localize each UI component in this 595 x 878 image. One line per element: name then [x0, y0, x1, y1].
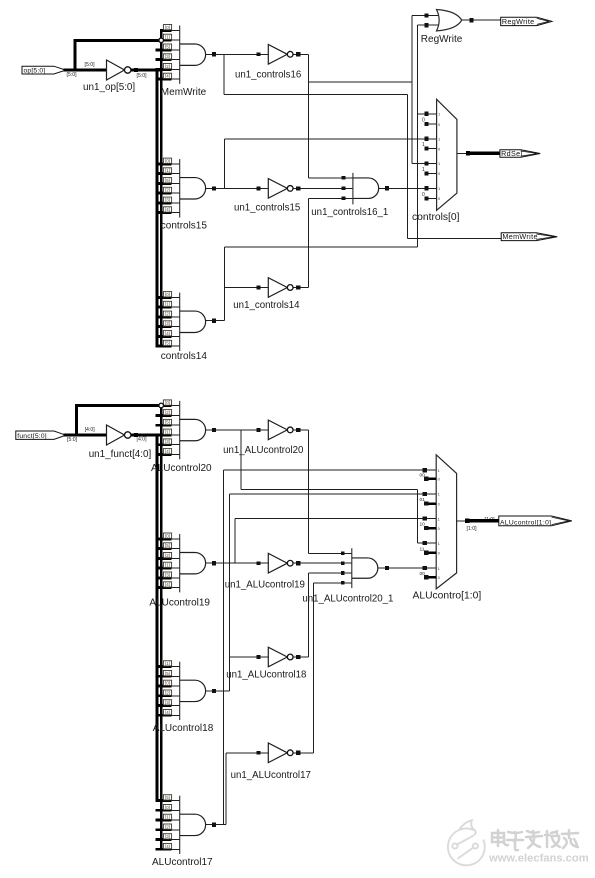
inverter un1_funct[4:0]: [107, 425, 125, 445]
output port RegWrite: [501, 17, 552, 25]
inverter un1_ALUcontrol19: [268, 553, 287, 573]
junction square RegWrite output: [469, 18, 473, 22]
svg-text:[1]: [1]: [165, 168, 170, 173]
svg-text:ALUcontrol20: ALUcontrol20: [151, 463, 212, 474]
wire un1_ALUcontrol17 vertical up: [313, 583, 315, 753]
wire funct bus to inverter: [64, 434, 108, 437]
wire ALUcontrol19 branch up: [234, 519, 236, 564]
wire funct bus top run: [75, 404, 159, 407]
wire MemWrite gate output to un1_controls16: [206, 53, 269, 55]
wire ALUcontrol20 output to un1_ALUcontrol20: [206, 429, 269, 431]
svg-text:[5]: [5]: [165, 543, 170, 548]
svg-text:1: 1: [438, 161, 440, 166]
junction square controls15 output: [212, 186, 216, 190]
svg-text:01: 01: [420, 497, 426, 503]
svg-text:[3]: [3]: [165, 197, 170, 202]
junction dot AND2 in4: [341, 581, 345, 585]
junction square un1_controls15 output: [296, 186, 300, 190]
bus tap [1]: [156, 172, 172, 175]
svg-text:MemWrite: MemWrite: [161, 87, 207, 98]
junction square mux pin3: [424, 137, 428, 141]
wire un1_ALUcontrol18 vertical up: [308, 573, 310, 657]
bus vertical un1_op (inverted): [156, 70, 159, 346]
bus tap [3]: [156, 58, 172, 61]
AND gate ALUcontrol18: [179, 662, 181, 720]
svg-text:[5:0]: [5:0]: [137, 73, 148, 79]
wire un1_funct output bus: [131, 434, 163, 437]
wire ALUcontrol19 output to un1_ALUcontrol19: [206, 562, 269, 564]
junction square ALUcontrol18 output: [212, 689, 216, 693]
junction square un1_controls15 input: [257, 187, 261, 191]
svg-text:1: 1: [438, 186, 440, 191]
svg-text:un1_controls15: un1_controls15: [234, 203, 300, 214]
bus tap [3]: [156, 838, 172, 841]
svg-text:[3]: [3]: [165, 700, 170, 705]
mux ALUcontro select stub 5: [424, 576, 436, 579]
svg-text:un1_funct[4:0]: un1_funct[4:0]: [89, 449, 152, 460]
wire un1_ALUcontrol18 output: [293, 656, 308, 658]
AND gate ALUcontrol19: [179, 534, 181, 592]
junction square RegWrite in2: [424, 23, 428, 27]
junction square un1_controls16 input: [257, 52, 261, 56]
junction square MemWrite output: [212, 52, 216, 56]
watermark chinese characters: [492, 830, 578, 850]
svg-text:[5]: [5]: [165, 795, 170, 800]
svg-text:ALUcontrol[1:0]: ALUcontrol[1:0]: [500, 519, 551, 526]
wire ALUcontrol17 vertical up long: [223, 470, 225, 825]
svg-text:un1_controls16: un1_controls16: [235, 69, 301, 80]
inverter un1_ALUcontrol17: [268, 743, 287, 763]
junction square un1_ALUcontrol19 input: [257, 561, 261, 565]
svg-text:controls15: controls15: [161, 221, 208, 232]
wire un1_ALUcontrol20_1 output to mux data5: [378, 567, 436, 569]
svg-text:[3]: [3]: [165, 321, 170, 326]
svg-text:1: 1: [438, 112, 440, 117]
AND gate un1_ALUcontrol20_1: [351, 548, 353, 588]
bus tap [1]: [156, 306, 172, 309]
svg-text:[4]: [4]: [165, 449, 170, 454]
bus tap [4]: [156, 335, 172, 338]
svg-text:[5]: [5]: [165, 671, 170, 676]
svg-text:[5:0]: [5:0]: [85, 62, 96, 68]
svg-text:ALUcontro[1:0]: ALUcontro[1:0]: [413, 591, 482, 602]
bus tap [3]: [156, 704, 172, 707]
svg-text:[0]: [0]: [165, 158, 170, 163]
svg-text:1: 1: [438, 468, 440, 473]
wire controls14 vertical up: [224, 247, 226, 321]
wire funct bus branch up: [75, 405, 78, 435]
bus tap [4]: [156, 586, 172, 589]
bus tap [2]: [156, 828, 172, 831]
junction square mux data3: [423, 516, 427, 520]
svg-text:1: 1: [438, 137, 440, 142]
svg-text:[5]: [5]: [165, 44, 170, 49]
svg-text:ALUcontrol17: ALUcontrol17: [152, 857, 213, 868]
wire un1_controls14 vertical up: [308, 198, 310, 287]
output port ALUcontrol[1:0]: [499, 516, 572, 526]
inverter un1_ALUcontrol20: [268, 420, 287, 440]
bus vertical un1_funct (inverted): [156, 435, 159, 801]
svg-text:un1_ALUcontrol17: un1_ALUcontrol17: [231, 770, 311, 781]
junction square mux data5: [423, 566, 427, 570]
wire un1_ALUcontrol17 output: [293, 752, 313, 754]
junction square un1_ALUcontrol17 output: [296, 751, 300, 755]
bus tap [1]: [156, 665, 172, 668]
bus tap [5]: [156, 547, 172, 550]
svg-text:[1:0]: [1:0]: [467, 526, 478, 532]
svg-text:[0]: [0]: [165, 681, 170, 686]
svg-text:00: 00: [420, 472, 426, 478]
watermark logo circle: [448, 820, 485, 865]
bus tap [2]: [156, 414, 172, 417]
junction square ALUcontrol17 output: [212, 823, 216, 827]
bus tap [1]: [156, 819, 172, 822]
wire AND2 in1 horizontal: [309, 552, 352, 554]
svg-text:[1]: [1]: [165, 35, 170, 40]
wire mux data1 horizontal: [224, 469, 437, 471]
wire un1_controls14 input: [225, 287, 269, 289]
svg-text:[0]: [0]: [165, 400, 170, 405]
svg-text:controls14: controls14: [161, 351, 208, 362]
svg-text:[4]: [4]: [165, 74, 170, 79]
wire RegWrite output: [462, 19, 501, 21]
svg-text:00: 00: [420, 571, 426, 577]
svg-text:[1]: [1]: [165, 661, 170, 666]
bus tap [2]: [156, 694, 172, 697]
mux ALUcontro select stub 2: [424, 502, 436, 505]
AND gate ALUcontrol17: [179, 796, 181, 854]
svg-text:[5]: [5]: [165, 420, 170, 425]
inverter un1_controls15: [268, 179, 287, 199]
wire un1_ALUcontrol20 vertical down: [308, 430, 310, 553]
mux controls[0] select stub pin8: [425, 197, 437, 199]
AND gate controls14: [179, 293, 181, 351]
bus tap [3]: [156, 325, 172, 328]
svg-text:[3]: [3]: [165, 572, 170, 577]
bus vertical funct (non-inverted): [160, 406, 163, 850]
wire MemWrite to output port: [408, 237, 502, 239]
wire un1_controls16 branch right: [309, 81, 412, 83]
junction dot AND2 in1: [341, 552, 345, 556]
wire mux pin1 horizontal: [418, 113, 437, 115]
bus tap [3]: [156, 201, 172, 204]
bus tap [0]: [156, 296, 172, 299]
bus tap [5]: [156, 48, 172, 51]
junction square un1_ALUcontrol17 input: [257, 751, 261, 755]
svg-text:[1]: [1]: [165, 429, 170, 434]
svg-text:[5]: [5]: [165, 178, 170, 183]
wire RegWrite in2 vertical: [417, 25, 419, 247]
svg-text:[2]: [2]: [165, 311, 170, 316]
junction square mux pin1: [424, 112, 428, 116]
wire RdSel bus thick: [468, 152, 501, 156]
OR gate RegWrite: [437, 10, 462, 31]
wire un1_ALUcontrol18 input: [230, 656, 269, 658]
junction square un1_controls16 output: [296, 52, 300, 56]
wire mux data2 horizontal: [230, 493, 437, 495]
wire MemWrite long run right: [224, 94, 408, 96]
svg-text:[4]: [4]: [165, 710, 170, 715]
bus tap [0]: [156, 162, 172, 165]
bus tap [4]: [156, 453, 172, 456]
junction dot AND in3: [342, 197, 346, 201]
svg-text:controls[0]: controls[0]: [412, 212, 460, 223]
bus vertical op (non-inverted): [160, 30, 163, 346]
wire ALUcontrol bus thick: [467, 519, 499, 523]
bus tap [4]: [156, 211, 172, 214]
svg-text:[1]: [1]: [165, 302, 170, 307]
svg-text:[2]: [2]: [165, 188, 170, 193]
wire un1_ALUcontrol17 input vertical: [225, 753, 227, 825]
junction square un1_ALUcontrol20 input: [257, 428, 261, 432]
output port RdSel: [500, 150, 540, 158]
wire un1_controls16_1 output to mux pin7: [379, 187, 437, 189]
svg-text:11: 11: [420, 546, 425, 552]
svg-text:un1_ALUcontrol19: un1_ALUcontrol19: [225, 580, 305, 591]
wire AND in3 horizontal: [309, 197, 353, 199]
junction square controls14 output: [212, 319, 216, 323]
wire un1_ALUcontrol17 input: [226, 752, 268, 754]
wire RegWrite in1 vertical: [411, 16, 413, 164]
svg-text:[4]: [4]: [165, 582, 170, 587]
wire un1_ALUcontrol19 output to AND2: [293, 562, 351, 564]
wire controls15 output to un1_controls15: [206, 187, 269, 189]
junction square RegWrite in1: [424, 13, 428, 17]
wire mux pin5 horizontal: [412, 162, 437, 164]
junction ring at funct bus / tap column: [159, 403, 164, 408]
svg-text:op[5:0]: op[5:0]: [24, 67, 46, 74]
svg-text:un1_ALUcontrol20: un1_ALUcontrol20: [223, 445, 304, 456]
bus tap [0]: [156, 537, 172, 540]
svg-text:[4:0]: [4:0]: [85, 427, 96, 433]
junction square mux data2: [423, 492, 427, 496]
svg-text:[4:0]: [4:0]: [137, 437, 148, 443]
junction dot AND2 in3: [341, 571, 345, 575]
wire ALUcontrol18 gate output: [206, 690, 230, 692]
wire AND in1 horizontal: [309, 177, 353, 179]
inverter un1_controls14: [268, 278, 287, 298]
svg-text:RegWrite: RegWrite: [421, 34, 463, 45]
bus tap [5]: [156, 182, 172, 185]
bus tap [5]: [156, 799, 172, 802]
junction square un1_controls16_1 output: [385, 186, 389, 190]
inverter un1_ALUcontrol18: [268, 647, 287, 667]
svg-text:un1_ALUcontrol20_1: un1_ALUcontrol20_1: [302, 594, 393, 605]
junction dot AND in2: [342, 187, 346, 191]
svg-text:[5:0]: [5:0]: [67, 72, 78, 78]
svg-text:RdSel: RdSel: [501, 149, 522, 158]
wire MemWrite branch down: [223, 54, 225, 94]
junction square mux pin5: [424, 161, 428, 165]
svg-text:0: 0: [422, 118, 425, 124]
mux ALUcontro[1:0]: [436, 455, 456, 589]
bus tap [1]: [156, 434, 172, 437]
bus tap [4]: [156, 714, 172, 717]
junction dot AND2 in2: [341, 561, 345, 565]
junction dot AND in1: [342, 176, 346, 180]
bus tap [4]: [156, 848, 172, 851]
bus tap [4]: [156, 78, 172, 81]
mux controls[0] select stub pin6: [425, 172, 437, 174]
bus tap [1]: [164, 39, 172, 42]
AND gate un1_controls16_1: [352, 173, 354, 205]
junction square mux data1: [423, 468, 427, 472]
wire controls14 gate output: [206, 320, 225, 322]
wire un1_controls15 output to AND: [293, 187, 353, 189]
input port funct: [16, 431, 66, 439]
svg-text:[4]: [4]: [165, 844, 170, 849]
junction square mux ALUcontro output: [465, 519, 469, 523]
svg-text:[2]: [2]: [165, 824, 170, 829]
junction square un1_ALUcontrol19 output: [296, 561, 300, 565]
wire ALUcontrol20 branch down: [240, 430, 242, 490]
wire controls14 long run to right column: [225, 246, 418, 248]
mux controls[0] select stub pin4: [425, 148, 437, 150]
svg-text:[0]: [0]: [165, 805, 170, 810]
bus tap [3]: [156, 443, 172, 446]
bus tap [3]: [156, 576, 172, 579]
bus tap [0]: [156, 685, 172, 688]
svg-text:[2]: [2]: [165, 64, 170, 69]
svg-text:[5:0]: [5:0]: [67, 437, 78, 443]
junction square un1_ALUcontrol20 output: [296, 428, 300, 432]
svg-text:[3]: [3]: [165, 439, 170, 444]
mux ALUcontro select stub 4: [424, 551, 436, 554]
svg-text:[0]: [0]: [165, 533, 170, 538]
wire ALUcontrol20 run right: [241, 488, 418, 490]
wire RegWrite in2 horizontal: [418, 24, 441, 26]
junction square on un1_op output: [134, 68, 138, 72]
junction square ALUcontrol20 output: [212, 428, 216, 432]
junction square un1_ALUcontrol20_1 output: [385, 566, 389, 570]
bus tap [2]: [156, 315, 172, 318]
svg-text:un1_controls14: un1_controls14: [233, 300, 300, 311]
svg-text:ALUcontrol18: ALUcontrol18: [153, 723, 214, 734]
wire mux data4 horizontal: [418, 542, 437, 544]
svg-text:0: 0: [422, 192, 425, 198]
bus tap [1]: [156, 567, 172, 570]
wire ALUcontrol20 jog down: [417, 489, 419, 543]
wire mux output stub: [457, 152, 468, 154]
wire mux data3 horizontal: [235, 518, 436, 520]
bus tap [5]: [156, 424, 172, 427]
svg-text:[4]: [4]: [165, 207, 170, 212]
wire un1_controls16 vertical down: [308, 54, 310, 178]
wire controls15 branch up: [224, 139, 226, 189]
AND gate MemWrite: [179, 26, 181, 84]
wire un1_op output bus: [131, 69, 163, 72]
output port MemWrite: [501, 233, 557, 241]
wire op bus to inverter: [64, 69, 108, 72]
wire mux ALUcontro output stub: [457, 520, 467, 522]
bus tap [0]: [164, 404, 172, 407]
svg-text:1: 1: [422, 167, 425, 173]
svg-text:funct[5:0]: funct[5:0]: [17, 433, 47, 440]
svg-text:[0]: [0]: [165, 292, 170, 297]
wire RegWrite in1 horizontal: [412, 15, 441, 17]
bus tap [5]: [156, 675, 172, 678]
bus tap [2]: [156, 68, 172, 71]
svg-text:1: 1: [422, 142, 425, 148]
svg-text:1: 1: [438, 516, 440, 521]
svg-text:[2]: [2]: [165, 553, 170, 558]
wire op bus top run: [74, 39, 159, 42]
svg-text:[3]: [3]: [165, 834, 170, 839]
mux controls[0] select stub pin2: [425, 123, 437, 125]
svg-text:[4]: [4]: [165, 331, 170, 336]
svg-text:[1]: [1]: [165, 563, 170, 568]
bus tap [5]: [156, 345, 172, 348]
wire op bus branch up: [74, 40, 77, 70]
svg-text:ALUcontrol19: ALUcontrol19: [149, 597, 210, 608]
wire controls15 to mux pin3: [225, 138, 437, 140]
bus tap [2]: [156, 192, 172, 195]
junction square on un1_funct output: [134, 433, 138, 437]
mux controls[0]: [437, 99, 457, 210]
AND gate ALUcontrol20: [179, 401, 181, 459]
svg-text:1: 1: [438, 566, 440, 571]
wire ALUcontrol18 vertical up: [229, 494, 231, 691]
wire un1_ALUcontrol20 output: [293, 429, 308, 431]
bus tap [2]: [156, 557, 172, 560]
junction square mux pin7: [424, 186, 428, 190]
wire un1_controls14 output: [293, 287, 308, 289]
junction square ALUcontrol19 output: [212, 561, 216, 565]
svg-text:[5]: [5]: [165, 341, 170, 346]
svg-text:[2]: [2]: [165, 410, 170, 415]
svg-text:RegWrite: RegWrite: [502, 17, 535, 26]
bus tap [0]: [156, 809, 172, 812]
inverter un1_op[5:0]: [107, 60, 125, 80]
junction square un1_controls14 output: [296, 285, 300, 289]
svg-text:un1_controls16_1: un1_controls16_1: [311, 207, 388, 218]
svg-text:www.elecfans.com: www.elecfans.com: [488, 853, 589, 865]
junction square un1_ALUcontrol18 output: [296, 655, 300, 659]
wire un1_controls16 output: [293, 53, 308, 55]
input port op: [22, 66, 66, 74]
wire AND2 in3 horizontal: [309, 572, 352, 574]
svg-text:10: 10: [420, 522, 426, 528]
svg-text:un1_ALUcontrol18: un1_ALUcontrol18: [226, 670, 306, 681]
svg-text:[0]: [0]: [165, 25, 170, 30]
inverter un1_controls16: [268, 45, 287, 65]
svg-text:un1_op[5:0]: un1_op[5:0]: [83, 82, 135, 93]
junction ring at op bus / tap column: [159, 38, 164, 43]
junction square un1_ALUcontrol18 input: [257, 655, 261, 659]
junction square un1_controls14 input: [257, 286, 261, 290]
svg-text:[3]: [3]: [165, 54, 170, 59]
AND gate controls15: [179, 159, 181, 217]
junction square mux data4: [423, 541, 427, 545]
mux ALUcontro select stub 1: [424, 477, 436, 480]
svg-text:1: 1: [438, 492, 440, 497]
svg-text:MemWrite: MemWrite: [502, 232, 537, 241]
mux ALUcontro select stub 3: [424, 527, 436, 530]
junction square mux output: [466, 151, 470, 155]
svg-text:[1]: [1]: [165, 815, 170, 820]
wire MemWrite down right column: [407, 95, 409, 239]
bus tap [0]: [160, 29, 172, 32]
wire AND2 in4 horizontal: [314, 582, 352, 584]
svg-text:[2]: [2]: [165, 690, 170, 695]
wire ALUcontrol17 gate output: [206, 824, 226, 826]
svg-text:1: 1: [438, 541, 440, 546]
